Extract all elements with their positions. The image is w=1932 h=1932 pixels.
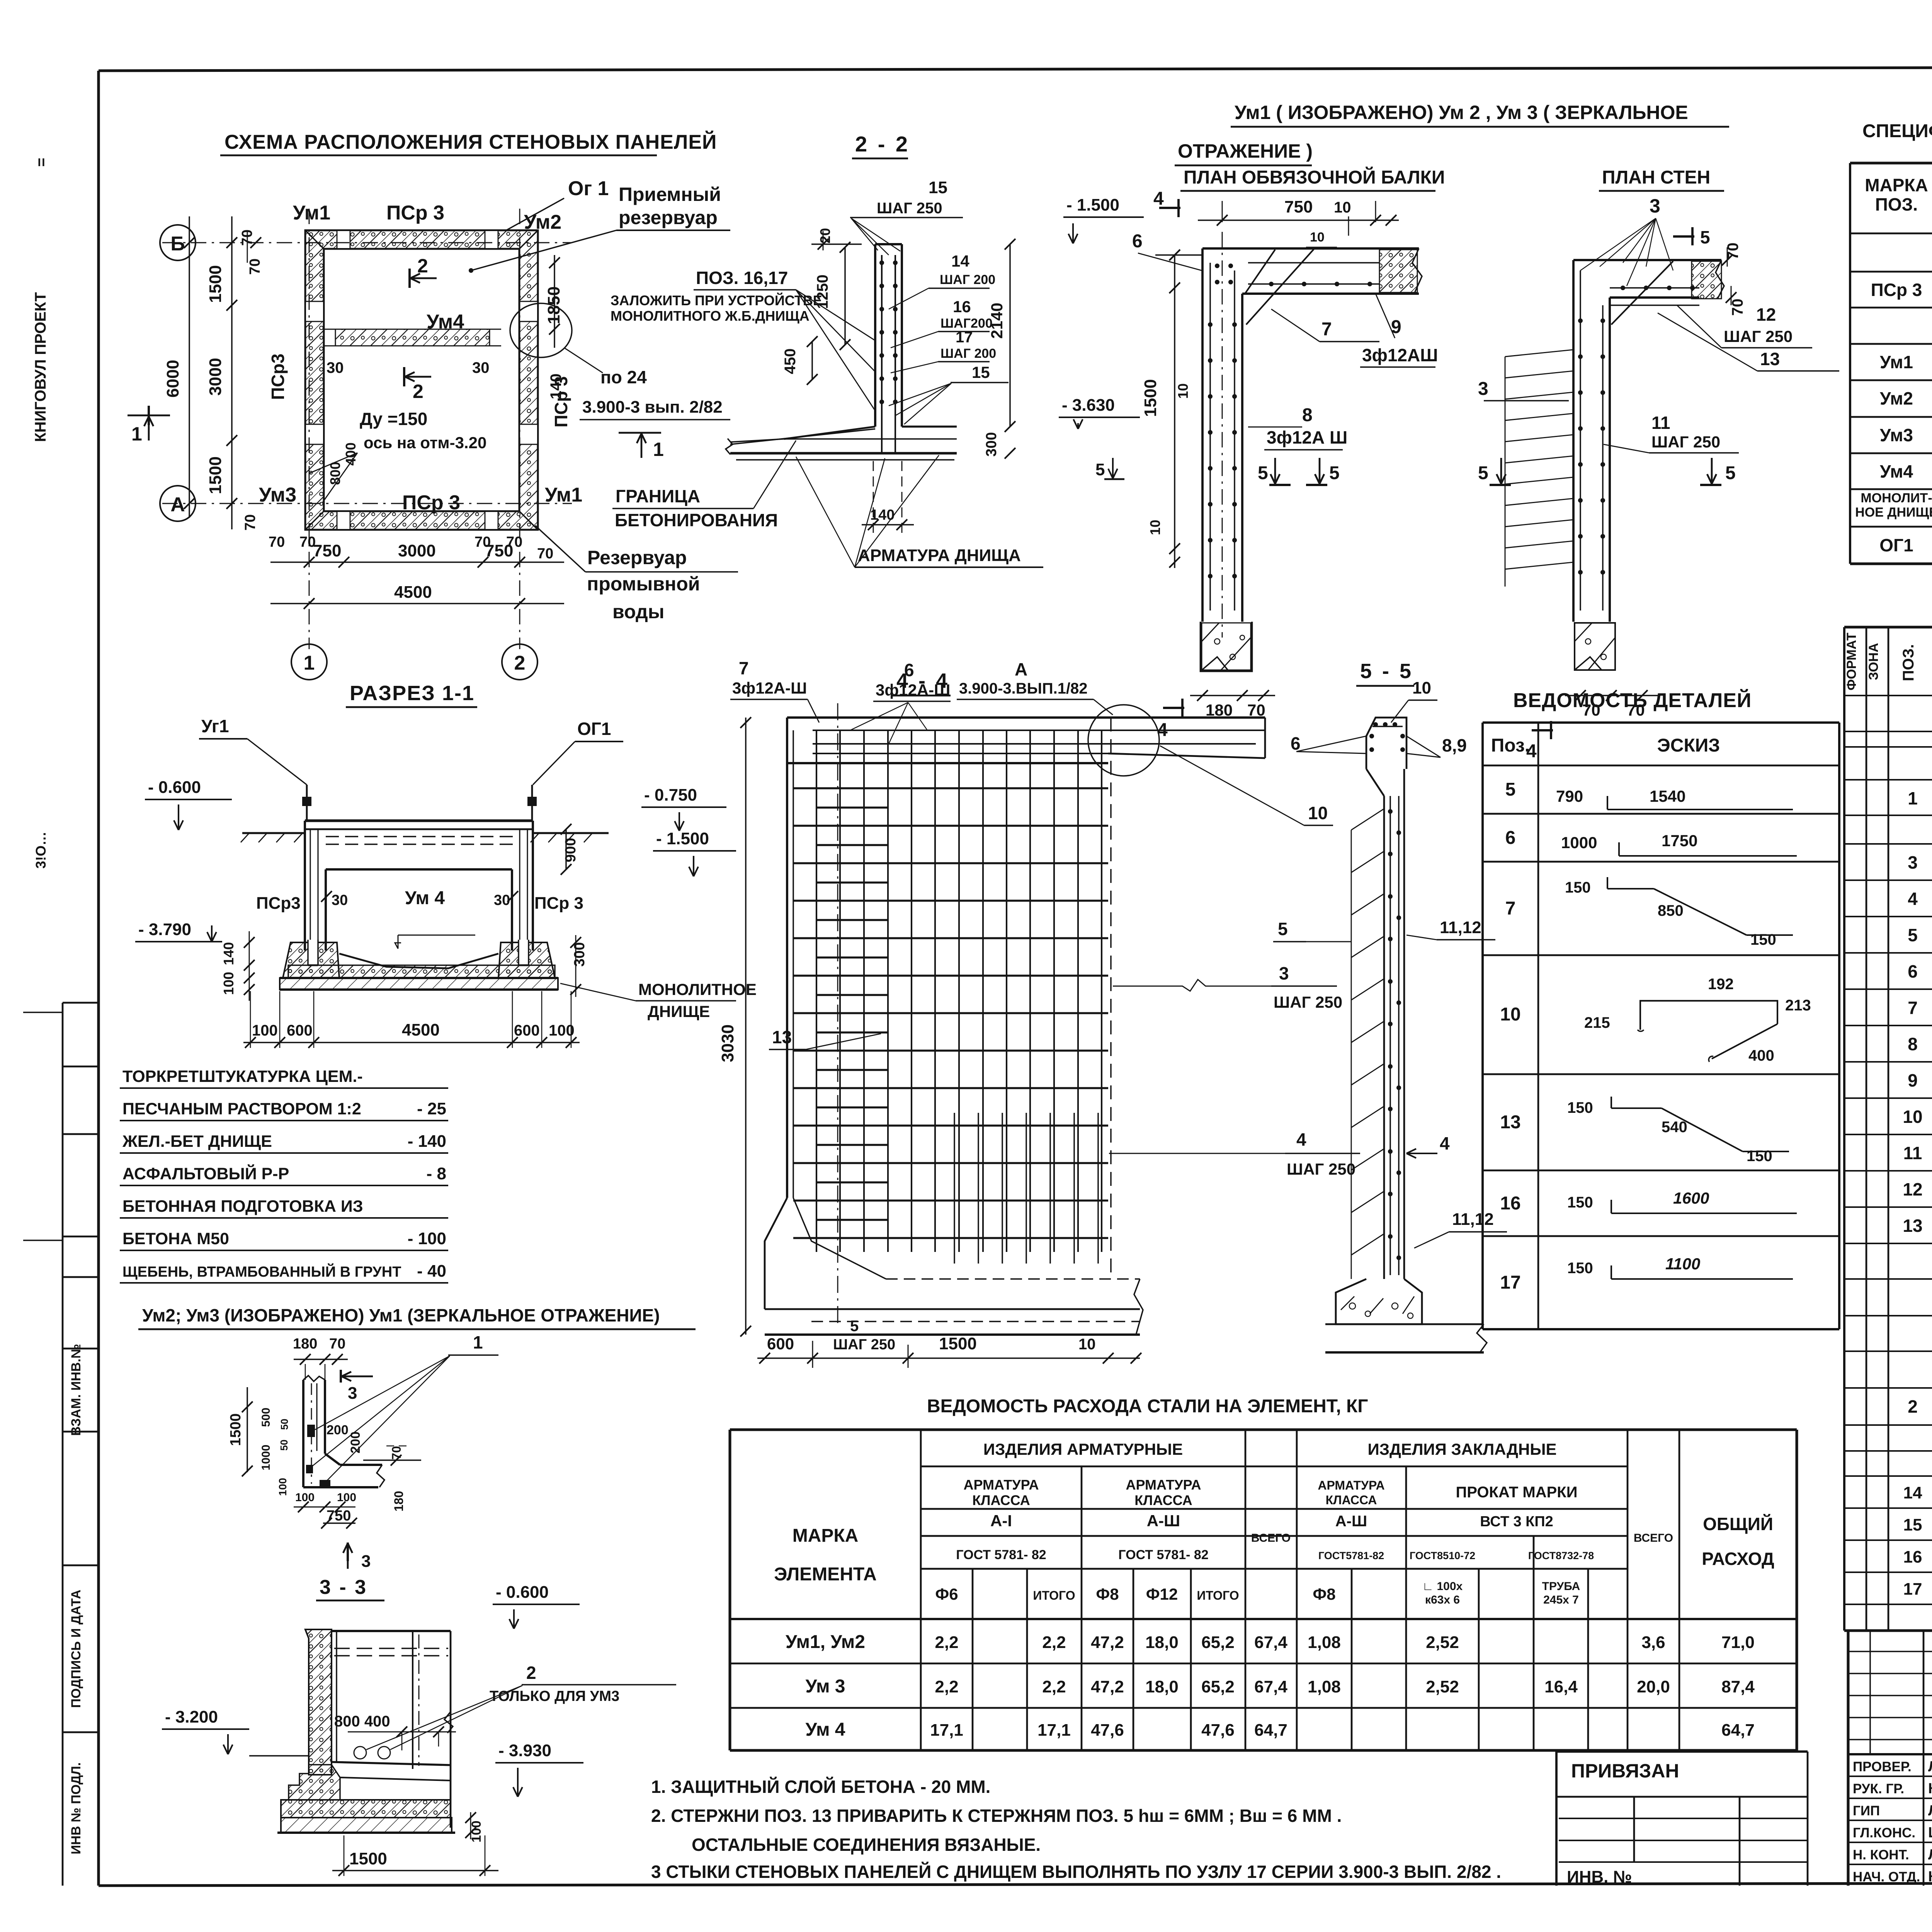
svg-text:2 - 2: 2 - 2: [855, 132, 910, 156]
svg-text:213: 213: [1785, 997, 1811, 1014]
svg-text:5: 5: [1478, 463, 1488, 483]
svg-text:16: 16: [1500, 1193, 1520, 1214]
svg-text:200: 200: [348, 1432, 363, 1454]
svg-text:7: 7: [1908, 998, 1918, 1018]
svg-text:ПЛАН ОБВЯЗОЧНОЙ БАЛКИ: ПЛАН ОБВЯЗОЧНОЙ БАЛКИ: [1184, 167, 1445, 188]
svg-text:87,4: 87,4: [1721, 1677, 1755, 1696]
svg-text:КРАСНОВА: КРАСНОВА: [1928, 1781, 1932, 1797]
svg-text:АРМАТУРА ДНИЩА: АРМАТУРА ДНИЩА: [858, 546, 1021, 565]
svg-text:64,7: 64,7: [1721, 1721, 1755, 1740]
svg-text:Ф6: Ф6: [935, 1585, 958, 1603]
svg-text:10: 10: [1308, 803, 1328, 823]
svg-text:Ф8: Ф8: [1313, 1585, 1335, 1603]
svg-text:ПЛАН СТЕН: ПЛАН СТЕН: [1602, 167, 1710, 188]
svg-text:- 8: - 8: [427, 1164, 446, 1183]
svg-text:9: 9: [1908, 1070, 1918, 1090]
svg-text:КЛАССА: КЛАССА: [1134, 1492, 1192, 1508]
svg-text:ШАГ 250: ШАГ 250: [1287, 1160, 1355, 1178]
svg-text:1100: 1100: [1665, 1255, 1700, 1273]
svg-text:ОБЩИЙ: ОБЩИЙ: [1703, 1514, 1773, 1534]
svg-text:Ум4: Ум4: [427, 311, 464, 333]
svg-text:ЛОУЦКЕР: ЛОУЦКЕР: [1928, 1803, 1932, 1819]
svg-text:14: 14: [951, 252, 969, 270]
svg-text:∟ 100х: ∟ 100х: [1422, 1580, 1463, 1593]
svg-text:ЗОНА: ЗОНА: [1866, 643, 1881, 680]
svg-text:Уг1: Уг1: [201, 716, 229, 736]
svg-text:1500: 1500: [1141, 379, 1160, 417]
svg-text:МАРКА: МАРКА: [1865, 175, 1928, 195]
svg-text:18,0: 18,0: [1145, 1633, 1179, 1652]
svg-text:47,2: 47,2: [1091, 1677, 1124, 1696]
svg-text:Поз.: Поз.: [1491, 735, 1530, 756]
svg-text:ГОСТ 5781- 82: ГОСТ 5781- 82: [1118, 1548, 1208, 1562]
svg-text:ПОЗ.: ПОЗ.: [1875, 194, 1918, 214]
svg-text:47,2: 47,2: [1091, 1633, 1124, 1652]
svg-text:2: 2: [417, 255, 428, 277]
svg-text:65,2: 65,2: [1201, 1677, 1235, 1696]
svg-text:ГЛ.КОНС.: ГЛ.КОНС.: [1853, 1825, 1915, 1840]
svg-text:3ф12А-Ш: 3ф12А-Ш: [732, 679, 807, 697]
svg-text:1600: 1600: [1673, 1189, 1709, 1207]
svg-text:БЕТОНА М50: БЕТОНА М50: [122, 1230, 229, 1248]
svg-text:67,4: 67,4: [1254, 1677, 1287, 1696]
svg-text:СХЕМА РАСПОЛОЖЕНИЯ СТЕНОВЫХ: СХЕМА РАСПОЛОЖЕНИЯ СТЕНОВЫХ ПАНЕЛЕЙ: [224, 131, 717, 153]
svg-text:1: 1: [304, 652, 315, 674]
svg-text:65,2: 65,2: [1201, 1633, 1235, 1652]
svg-text:10: 10: [1175, 383, 1191, 399]
svg-text:5: 5: [1725, 463, 1736, 483]
svg-text:70: 70: [299, 534, 316, 550]
svg-text:1. ЗАЩИТНЫЙ СЛОЙ БЕТОНА -: 1. ЗАЩИТНЫЙ СЛОЙ БЕТОНА - 20 ММ.: [651, 1777, 990, 1797]
svg-text:АСФАЛЬТОВЫЙ Р-Р: АСФАЛЬТОВЫЙ Р-Р: [122, 1164, 289, 1183]
svg-text:РАСХОД: РАСХОД: [1702, 1549, 1774, 1569]
svg-text:150: 150: [1565, 879, 1591, 896]
svg-text:17: 17: [956, 329, 973, 346]
svg-text:А-I: А-I: [990, 1512, 1012, 1530]
svg-text:БЕТОННАЯ ПОДГОТОВКА ИЗ: БЕТОННАЯ ПОДГОТОВКА ИЗ: [122, 1197, 363, 1216]
svg-text:Н. КОНТ.: Н. КОНТ.: [1853, 1847, 1909, 1862]
svg-text:150: 150: [1567, 1194, 1593, 1211]
svg-text:ПСр 3: ПСр 3: [1871, 280, 1922, 300]
svg-text:7: 7: [1321, 319, 1332, 340]
svg-text:790: 790: [1556, 787, 1583, 805]
svg-text:5: 5: [1258, 463, 1268, 483]
svg-text:ГОСТ5781-82: ГОСТ5781-82: [1318, 1550, 1384, 1561]
svg-text:ИНВ. №: ИНВ. №: [1567, 1867, 1632, 1886]
svg-text:ПСр 3: ПСр 3: [386, 202, 444, 224]
svg-text:4500: 4500: [394, 583, 432, 602]
svg-text:- 3.630: - 3.630: [1062, 396, 1115, 415]
svg-text:6000: 6000: [163, 360, 182, 398]
svg-text:1500: 1500: [206, 456, 225, 494]
svg-text:МОНОЛИТ-: МОНОЛИТ-: [1861, 491, 1932, 505]
svg-text:10: 10: [1903, 1107, 1922, 1127]
svg-text:17: 17: [1500, 1272, 1520, 1293]
svg-text:150: 150: [1747, 1148, 1772, 1165]
svg-text:ВЕДОМОСТЬ РАСХОДА СТАЛИ: ВЕДОМОСТЬ РАСХОДА СТАЛИ НА ЭЛЕМЕНТ, КГ: [927, 1396, 1368, 1417]
svg-text:ЭСКИЗ: ЭСКИЗ: [1657, 735, 1720, 756]
svg-text:КЛАССА: КЛАССА: [972, 1492, 1030, 1508]
svg-text:- 3.200: - 3.200: [165, 1708, 218, 1726]
svg-text:ГИП: ГИП: [1853, 1803, 1880, 1818]
svg-text:4: 4: [1296, 1129, 1306, 1150]
svg-text:Ум 4: Ум 4: [405, 888, 445, 908]
svg-text:5: 5: [850, 1318, 859, 1335]
svg-text:1,08: 1,08: [1308, 1633, 1341, 1652]
svg-text:500: 500: [260, 1408, 272, 1427]
svg-text:ВЗАМ. ИНВ.№: ВЗАМ. ИНВ.№: [69, 1344, 83, 1436]
svg-text:5: 5: [1700, 227, 1710, 247]
svg-text:Ум2: Ум2: [1880, 388, 1913, 408]
svg-text:НАЧ. ОТД.: НАЧ. ОТД.: [1853, 1869, 1920, 1884]
svg-text:100: 100: [295, 1491, 315, 1504]
svg-text:Ум3: Ум3: [259, 484, 296, 506]
svg-text:Ум 3: Ум 3: [805, 1676, 845, 1697]
svg-text:400: 400: [343, 442, 359, 466]
svg-text:ГОСТ8510-72: ГОСТ8510-72: [1410, 1550, 1475, 1561]
svg-text:67,4: 67,4: [1254, 1633, 1287, 1652]
svg-text:Ум2: Ум2: [524, 211, 561, 233]
svg-text:ПСр3: ПСр3: [256, 894, 301, 913]
svg-text:- 0.750: - 0.750: [644, 786, 697, 804]
svg-text:70: 70: [1729, 299, 1746, 316]
svg-text:ШАГ 200: ШАГ 200: [940, 272, 995, 287]
svg-text:1500: 1500: [939, 1334, 977, 1353]
svg-text:РАЗРЕЗ 1-1: РАЗРЕЗ 1-1: [350, 682, 474, 705]
svg-text:ПОДПИСЬ И ДАТА: ПОДПИСЬ И ДАТА: [69, 1590, 83, 1708]
svg-text:ПРОВЕР.: ПРОВЕР.: [1853, 1759, 1912, 1774]
svg-text:4: 4: [1153, 189, 1164, 209]
svg-text:Ум1 ( ИЗОБРАЖЕНО) Ум 2 , У: Ум1 ( ИЗОБРАЖЕНО) Ум 2 , Ум 3 ( ЗЕРКАЛЬН…: [1235, 102, 1688, 123]
svg-text:18,0: 18,0: [1145, 1677, 1179, 1696]
svg-text:50: 50: [278, 1440, 290, 1451]
svg-text:3030: 3030: [718, 1024, 737, 1062]
svg-text:150: 150: [1567, 1099, 1593, 1116]
svg-text:ПСр 3: ПСр 3: [534, 894, 583, 913]
svg-text:30: 30: [472, 359, 490, 376]
svg-text:Ум3: Ум3: [1880, 425, 1913, 445]
svg-text:70: 70: [474, 534, 491, 550]
svg-text:- 0.600: - 0.600: [148, 778, 201, 797]
svg-text:70: 70: [247, 259, 263, 275]
svg-text:ГРАНИЦА: ГРАНИЦА: [616, 486, 700, 506]
svg-text:Ф12: Ф12: [1146, 1585, 1178, 1603]
svg-text:ВЕДОМОСТЬ ДЕТАЛЕЙ: ВЕДОМОСТЬ ДЕТАЛЕЙ: [1513, 689, 1752, 712]
svg-text:13: 13: [1760, 349, 1780, 369]
svg-text:АРМАТУРА: АРМАТУРА: [1318, 1478, 1384, 1492]
svg-text:ШАГ 250: ШАГ 250: [1651, 433, 1720, 451]
svg-text:30: 30: [332, 892, 348, 908]
svg-text:14: 14: [1903, 1483, 1922, 1502]
svg-text:ВСЕГО: ВСЕГО: [1251, 1532, 1291, 1544]
svg-text:- 1.500: - 1.500: [656, 829, 709, 848]
svg-text:Ум1, Ум2: Ум1, Ум2: [786, 1632, 865, 1652]
svg-text:ШАГ 250: ШАГ 250: [833, 1337, 895, 1353]
svg-text:2. СТЕРЖНИ ПОЗ. 13 ПРИВАРИ: 2. СТЕРЖНИ ПОЗ. 13 ПРИВАРИТЬ К СТЕРЖНЯМ …: [651, 1806, 1342, 1826]
svg-text:13: 13: [772, 1027, 792, 1047]
svg-text:17,1: 17,1: [1037, 1721, 1071, 1740]
svg-text:215: 215: [1584, 1014, 1610, 1031]
svg-text:- 1.500: - 1.500: [1066, 196, 1119, 214]
svg-text:АРМАТУРА: АРМАТУРА: [1126, 1477, 1201, 1493]
svg-text:300: 300: [983, 432, 1000, 456]
svg-text:А-Ш: А-Ш: [1335, 1513, 1367, 1530]
svg-text:3: 3: [1279, 963, 1289, 983]
svg-text:- 100: - 100: [408, 1229, 446, 1248]
svg-text:ФОРМАТ: ФОРМАТ: [1844, 633, 1859, 690]
svg-text:6: 6: [1132, 231, 1143, 252]
svg-text:ЛОУЦКЕР: ЛОУЦКЕР: [1928, 1847, 1932, 1863]
svg-text:1,08: 1,08: [1308, 1677, 1341, 1696]
svg-text:ШАПИРО: ШАПИРО: [1928, 1825, 1932, 1841]
svg-text:БЕТОНИРОВАНИЯ: БЕТОНИРОВАНИЯ: [615, 510, 778, 530]
svg-text:ИТОГО: ИТОГО: [1197, 1588, 1239, 1602]
svg-text:13: 13: [1903, 1216, 1922, 1236]
svg-text:ГОСТ 5781- 82: ГОСТ 5781- 82: [956, 1548, 1046, 1562]
svg-text:ОСТАЛЬНЫЕ СОЕДИНЕНИЯ ВЯЗА: ОСТАЛЬНЫЕ СОЕДИНЕНИЯ ВЯЗАНЫЕ.: [692, 1835, 1041, 1855]
svg-text:ШАГ 250: ШАГ 250: [877, 200, 942, 217]
svg-text:100: 100: [337, 1491, 356, 1504]
svg-text:1: 1: [653, 439, 664, 460]
svg-text:к63х 6: к63х 6: [1425, 1594, 1460, 1606]
svg-text:4: 4: [1908, 889, 1918, 909]
svg-text:900: 900: [563, 838, 579, 862]
svg-text:ЗАЛОЖИТЬ ПРИ УСТРОЙСТВЕ: ЗАЛОЖИТЬ ПРИ УСТРОЙСТВЕ: [611, 292, 822, 308]
svg-text:100: 100: [221, 972, 236, 995]
svg-text:180: 180: [1206, 701, 1233, 719]
svg-text:1: 1: [1908, 788, 1918, 808]
svg-text:180: 180: [392, 1491, 406, 1511]
svg-text:Ум1: Ум1: [545, 484, 582, 506]
svg-text:3ф12АШ: 3ф12АШ: [1362, 345, 1438, 365]
svg-text:ПСр 3: ПСр 3: [402, 492, 460, 514]
svg-text:7: 7: [1505, 898, 1516, 919]
svg-text:- 3.790: - 3.790: [138, 920, 191, 939]
svg-text:5: 5: [1505, 779, 1516, 800]
svg-text:2,2: 2,2: [1042, 1633, 1066, 1652]
svg-text:71,0: 71,0: [1721, 1633, 1755, 1652]
svg-text:3 - 3: 3 - 3: [320, 1576, 367, 1599]
svg-text:ЩЕБЕНЬ, ВТРАМБОВАННЫЙ В ГРУНТ: ЩЕБЕНЬ, ВТРАМБОВАННЫЙ В ГРУНТ: [122, 1263, 401, 1280]
svg-text:2,52: 2,52: [1426, 1677, 1459, 1696]
svg-text:ИЗДЕЛИЯ АРМАТУРНЫЕ: ИЗДЕЛИЯ АРМАТУРНЫЕ: [983, 1440, 1183, 1458]
svg-text:70: 70: [506, 534, 522, 550]
svg-text:=: =: [33, 158, 50, 167]
svg-text:СПЕЦИФИКАЦИЯ К СХЕМЕ РАСПОЛ: СПЕЦИФИКАЦИЯ К СХЕМЕ РАСПОЛОЖЕНИЯ СТЕНОВ…: [1862, 120, 1932, 141]
svg-text:5: 5: [1908, 925, 1918, 945]
svg-text:Б: Б: [170, 233, 185, 255]
svg-text:17: 17: [1903, 1580, 1922, 1599]
svg-text:70: 70: [269, 534, 285, 550]
svg-text:2: 2: [1908, 1396, 1918, 1417]
svg-text:750: 750: [327, 1508, 351, 1524]
svg-text:Ум4: Ум4: [1880, 461, 1913, 481]
svg-text:15: 15: [972, 363, 990, 381]
svg-text:1540: 1540: [1650, 787, 1685, 805]
svg-text:10: 10: [1310, 230, 1325, 245]
svg-text:ШАГ 250: ШАГ 250: [1274, 993, 1342, 1011]
svg-text:10: 10: [1147, 520, 1163, 535]
svg-text:50: 50: [279, 1419, 290, 1430]
svg-text:11,12: 11,12: [1452, 1210, 1494, 1229]
svg-text:резервуар: резервуар: [619, 207, 718, 228]
svg-text:8: 8: [1302, 405, 1313, 425]
svg-text:3.900-3.ВЫП.1/82: 3.900-3.ВЫП.1/82: [959, 680, 1088, 697]
svg-text:70: 70: [537, 546, 553, 562]
svg-text:16: 16: [1903, 1548, 1922, 1566]
svg-text:- 0.600: - 0.600: [496, 1583, 549, 1602]
svg-text:12: 12: [1903, 1179, 1922, 1199]
svg-text:15: 15: [929, 178, 947, 197]
svg-text:2,52: 2,52: [1426, 1633, 1459, 1652]
svg-text:Резервуар: Резервуар: [587, 547, 687, 568]
svg-text:11,12: 11,12: [1440, 918, 1481, 937]
svg-text:1000: 1000: [1561, 833, 1597, 852]
svg-text:Ум 4: Ум 4: [805, 1719, 845, 1740]
svg-text:200: 200: [327, 1423, 349, 1437]
svg-text:192: 192: [1708, 976, 1734, 993]
svg-text:100: 100: [252, 1022, 278, 1039]
svg-text:6: 6: [904, 660, 914, 680]
svg-text:АРМАТУРА: АРМАТУРА: [964, 1477, 1039, 1493]
svg-text:3!О…: 3!О…: [33, 832, 49, 869]
svg-text:МОНОЛИТНОЕ: МОНОЛИТНОЕ: [638, 980, 757, 998]
svg-text:100: 100: [277, 1478, 289, 1496]
svg-text:150: 150: [1567, 1260, 1593, 1277]
svg-text:1: 1: [473, 1332, 483, 1352]
svg-text:140: 140: [870, 507, 895, 523]
svg-text:8,9: 8,9: [1442, 735, 1467, 755]
svg-text:промывной: промывной: [587, 573, 700, 595]
svg-text:70: 70: [242, 514, 259, 531]
svg-text:ДНИЩЕ: ДНИЩЕ: [648, 1002, 710, 1020]
svg-text:600: 600: [287, 1022, 313, 1039]
svg-text:5 - 5: 5 - 5: [1360, 660, 1413, 683]
svg-text:2140: 2140: [988, 303, 1006, 338]
svg-text:2,2: 2,2: [1042, 1677, 1066, 1696]
svg-text:ПСр3: ПСр3: [268, 354, 288, 400]
svg-text:ТОРКРЕТШТУКАТУРКА ЦЕМ.-: ТОРКРЕТШТУКАТУРКА ЦЕМ.-: [122, 1067, 363, 1086]
svg-text:ОГ1: ОГ1: [577, 719, 611, 739]
svg-text:3,6: 3,6: [1641, 1633, 1665, 1652]
svg-text:3.900-3 вып. 2/82: 3.900-3 вып. 2/82: [582, 398, 723, 417]
svg-text:800: 800: [327, 462, 343, 485]
svg-text:300: 300: [571, 942, 588, 966]
svg-text:70: 70: [389, 1446, 403, 1460]
svg-text:ЛОУЦКЕР: ЛОУЦКЕР: [1928, 1759, 1932, 1775]
svg-text:4: 4: [1440, 1133, 1450, 1153]
svg-text:КРАСАВИН.: КРАСАВИН.: [1928, 1869, 1932, 1885]
svg-text:5: 5: [1329, 463, 1340, 483]
svg-text:17,1: 17,1: [930, 1721, 963, 1740]
svg-text:РУК. ГР.: РУК. ГР.: [1853, 1781, 1904, 1796]
svg-text:ось на отм-3.20: ось на отм-3.20: [364, 434, 486, 452]
svg-text:7: 7: [739, 658, 749, 678]
svg-text:3000: 3000: [398, 541, 436, 560]
svg-text:- 140: - 140: [408, 1132, 446, 1151]
svg-text:750: 750: [1284, 197, 1313, 216]
svg-text:Ф8: Ф8: [1096, 1585, 1119, 1603]
svg-text:по 24: по 24: [600, 367, 647, 387]
svg-text:3: 3: [1650, 195, 1660, 217]
svg-text:2,2: 2,2: [935, 1633, 958, 1652]
svg-text:ПРИВЯЗАН: ПРИВЯЗАН: [1571, 1760, 1679, 1782]
svg-text:3 СТЫКИ СТЕНОВЫХ ПАНЕЛЕЙ: 3 СТЫКИ СТЕНОВЫХ ПАНЕЛЕЙ С ДНИЩЕМ ВЫПОЛН…: [651, 1862, 1501, 1882]
svg-text:3: 3: [348, 1384, 357, 1403]
svg-text:1500: 1500: [349, 1849, 387, 1868]
svg-text:МАРКА: МАРКА: [793, 1526, 859, 1546]
svg-text:ПСр 3: ПСр 3: [551, 376, 571, 428]
svg-text:ВСЕГО: ВСЕГО: [1634, 1532, 1673, 1544]
svg-text:ГОСТ8732-78: ГОСТ8732-78: [1528, 1550, 1594, 1561]
svg-text:А-Ш: А-Ш: [1147, 1512, 1180, 1530]
svg-text:Приемный: Приемный: [619, 184, 721, 205]
svg-text:64,7: 64,7: [1254, 1721, 1287, 1740]
svg-text:10: 10: [1078, 1336, 1096, 1353]
svg-text:750: 750: [313, 541, 341, 560]
svg-text:9: 9: [1391, 317, 1401, 337]
svg-text:ТРУБА: ТРУБА: [1542, 1580, 1580, 1593]
svg-text:Ог 1: Ог 1: [568, 177, 609, 200]
svg-text:70: 70: [1247, 701, 1265, 719]
svg-text:3: 3: [1908, 852, 1918, 872]
svg-text:ИНВ № ПОДЛ.: ИНВ № ПОДЛ.: [69, 1762, 83, 1854]
svg-text:Ду =150: Ду =150: [360, 409, 427, 429]
svg-text:10: 10: [1412, 679, 1431, 697]
svg-text:ШАГ 250: ШАГ 250: [1724, 327, 1793, 345]
svg-text:11: 11: [1903, 1143, 1922, 1163]
svg-text:6: 6: [1908, 961, 1918, 981]
svg-text:11: 11: [1651, 413, 1670, 433]
svg-text:150: 150: [1750, 931, 1776, 948]
svg-text:5: 5: [1278, 919, 1288, 939]
svg-text:1000: 1000: [260, 1445, 272, 1471]
svg-text:МОНОЛИТНОГО Ж.Б.ДНИЩА: МОНОЛИТНОГО Ж.Б.ДНИЩА: [611, 308, 810, 324]
svg-text:12: 12: [1756, 304, 1776, 325]
svg-text:540: 540: [1662, 1119, 1687, 1136]
svg-text:245х 7: 245х 7: [1543, 1594, 1579, 1606]
svg-text:Ум2; Ум3 (ИЗОБРАЖЕНО) Ум1 (ЗЕ: Ум2; Ум3 (ИЗОБРАЖЕНО) Ум1 (ЗЕРКАЛЬНОЕ ОТ…: [142, 1305, 660, 1325]
svg-text:4500: 4500: [402, 1020, 440, 1039]
svg-text:100: 100: [549, 1022, 575, 1039]
svg-text:ШАГ 200: ШАГ 200: [940, 346, 996, 361]
svg-text:30: 30: [327, 359, 344, 376]
svg-text:800 400: 800 400: [334, 1713, 390, 1730]
svg-text:ПЕСЧАНЫМ РАСТВОРОМ 1:2: ПЕСЧАНЫМ РАСТВОРОМ 1:2: [122, 1100, 361, 1118]
svg-text:1250: 1250: [814, 275, 831, 309]
svg-text:ПОЗ. 16,17: ПОЗ. 16,17: [696, 268, 788, 288]
svg-text:140: 140: [221, 942, 236, 965]
svg-text:1500: 1500: [228, 1413, 244, 1446]
svg-text:10: 10: [1500, 1004, 1520, 1025]
svg-text:ИТОГО: ИТОГО: [1033, 1588, 1075, 1602]
svg-text:2: 2: [514, 652, 526, 674]
svg-text:70: 70: [329, 1336, 345, 1352]
svg-text:ВСТ 3 КП2: ВСТ 3 КП2: [1480, 1514, 1553, 1530]
svg-text:ПРОКАТ МАРКИ: ПРОКАТ МАРКИ: [1456, 1484, 1578, 1501]
svg-text:ИЗДЕЛИЯ ЗАКЛАДНЫЕ: ИЗДЕЛИЯ ЗАКЛАДНЫЕ: [1368, 1440, 1557, 1458]
svg-text:850: 850: [1658, 902, 1684, 919]
svg-text:2,2: 2,2: [935, 1677, 958, 1696]
svg-text:А: А: [1015, 659, 1027, 679]
svg-text:1: 1: [131, 423, 142, 445]
svg-text:Ум1: Ум1: [1880, 352, 1913, 372]
svg-text:воды: воды: [612, 601, 664, 622]
svg-text:- 25: - 25: [417, 1099, 446, 1118]
svg-text:20,0: 20,0: [1637, 1677, 1670, 1696]
svg-text:400: 400: [1748, 1047, 1774, 1064]
svg-text:450: 450: [782, 349, 799, 374]
